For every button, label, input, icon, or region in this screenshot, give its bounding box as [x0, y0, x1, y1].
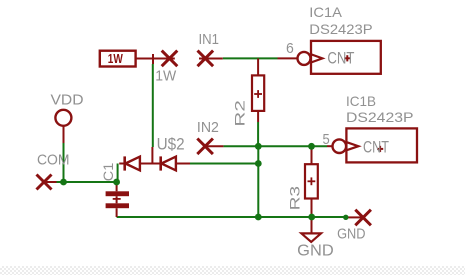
svg-text:5: 5 — [323, 131, 330, 148]
junction C1 node — [113, 179, 120, 186]
wire vertical bus — [257, 146, 259, 217]
net-label box 1W — [100, 51, 136, 67]
svg-text:COM: COM — [37, 152, 70, 169]
wire IN1 to pin 6 — [223, 57, 278, 59]
IC1B clock chevron — [347, 142, 359, 150]
svg-text:1W: 1W — [108, 52, 123, 66]
svg-text:IC1B: IC1B — [346, 93, 376, 109]
junction diode bus — [255, 160, 262, 167]
wire diode output to vertical bus — [190, 163, 258, 165]
svg-text:CNT: CNT — [327, 48, 354, 67]
X cross COM — [44, 181, 57, 183]
wire IN2 to pin 5 — [223, 145, 327, 147]
junction R3 bottom — [308, 214, 315, 221]
supply VDD — [55, 110, 71, 126]
svg-text:GND: GND — [337, 227, 365, 243]
svg-text:DS2423P: DS2423P — [346, 109, 414, 125]
X cross IN1 — [199, 58, 223, 60]
svg-text:1W: 1W — [155, 68, 177, 85]
wire C1 node up to diode cathode — [117, 164, 119, 183]
wire label to X1 — [136, 58, 175, 60]
svg-text:IC1A: IC1A — [309, 4, 342, 20]
IC1B pin bubble — [333, 139, 347, 153]
IC1B plus — [377, 148, 383, 150]
resistor R2 — [257, 58, 259, 75]
dual diode U$2 : diode 2 — [159, 156, 162, 170]
diode mid pin up — [151, 147, 153, 164]
wire COM horizontal — [56, 181, 117, 183]
svg-text:IN1: IN1 — [199, 31, 220, 48]
svg-text:CNT: CNT — [363, 138, 389, 157]
IC1A box — [311, 41, 381, 74]
wire VDD vertical — [63, 143, 65, 182]
X cross GND net end — [347, 216, 363, 218]
svg-text:C1: C1 — [100, 162, 116, 181]
svg-text:IN2: IN2 — [197, 119, 219, 136]
diode mid link — [140, 163, 161, 165]
X cross IN2 — [205, 145, 223, 147]
svg-text:U$2: U$2 — [157, 135, 185, 153]
svg-text:R2: R2 — [232, 100, 248, 127]
wire end dot GND — [343, 215, 348, 220]
svg-text:R3: R3 — [287, 186, 303, 211]
junction pin tick — [152, 54, 154, 64]
checker band bottom — [0, 266, 465, 275]
junction bus bottom — [255, 214, 262, 221]
svg-text:DS2423P: DS2423P — [309, 21, 372, 37]
capacitor C1 — [116, 182, 118, 191]
svg-text:6: 6 — [286, 40, 294, 57]
junction R2 bottom — [255, 143, 262, 150]
junction VDD/COM — [60, 179, 67, 186]
IC1B box — [346, 128, 417, 162]
dual diode U$2 : diode 1 — [119, 163, 125, 165]
label 1W in box — [108, 52, 123, 66]
ground symbol GND — [301, 233, 321, 242]
IC1A pin bubble — [298, 52, 311, 65]
IC1B pin 5 lead — [327, 145, 333, 147]
X cross 1W net end — [162, 51, 178, 67]
wire 1W junction down — [152, 64, 154, 147]
wire R2 bottom — [257, 122, 259, 146]
resistor R3 — [311, 148, 313, 164]
svg-text:GND: GND — [297, 243, 334, 260]
junction R3 top — [308, 143, 315, 150]
IC1A pin 6 lead — [278, 57, 298, 59]
IC1A clock chevron — [311, 54, 322, 62]
wire bottom GND rail — [117, 216, 346, 218]
IC1A plus — [344, 57, 350, 59]
svg-text:VDD: VDD — [51, 91, 84, 108]
